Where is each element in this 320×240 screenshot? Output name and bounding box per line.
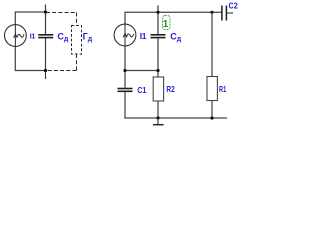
dashed lead from Gd box bottom <box>76 54 78 71</box>
junction node top-right <box>210 11 213 14</box>
current source G1 sine <box>17 34 24 37</box>
current source I1 arrowhead <box>123 34 127 38</box>
node 1 green box <box>163 16 171 30</box>
svg-text:C2: C2 <box>229 1 238 11</box>
ground stub <box>157 118 159 124</box>
svg-text:1: 1 <box>163 18 169 30</box>
wire: source bottom to bottom node <box>15 46 45 70</box>
capacitor C2 right stub <box>226 12 233 14</box>
svg-text:I1: I1 <box>140 31 147 41</box>
ground bar <box>153 124 164 126</box>
resistor R2 <box>153 77 163 101</box>
current source I1 sine <box>127 34 134 37</box>
capacitor Cd top plate <box>38 34 53 36</box>
capacitor Cd2 bottom plate <box>151 37 166 39</box>
junction node 1 top <box>156 11 159 14</box>
wire: source bottom down to C1 <box>124 46 126 88</box>
junction node bottom-left <box>44 69 47 72</box>
wire: top node down to R1 <box>211 12 213 76</box>
junction node Cd2 bottom <box>156 69 159 72</box>
capacitor C1 top plate <box>118 88 133 90</box>
current source G1 circle <box>5 25 27 47</box>
wire: R1 bottom to rail <box>211 101 213 119</box>
svg-text:R2: R2 <box>166 84 175 94</box>
current source I1 through-line <box>124 24 126 46</box>
junction node middle-left <box>123 69 126 72</box>
junction node top-left <box>44 10 47 13</box>
junction node ground <box>156 116 159 119</box>
dashed wire: top node to Gd lead <box>46 12 77 14</box>
dashed wire: Gd lead to bottom node <box>46 70 77 72</box>
wire: R2 bottom to rail <box>157 101 159 118</box>
svg-text:C1: C1 <box>137 85 146 95</box>
capacitor C2 left plate <box>221 6 223 21</box>
capacitor C2 right plate <box>225 6 227 21</box>
current source G1 arrowhead <box>14 34 18 38</box>
capacitor Cd2 top stub <box>157 6 159 13</box>
wire: below C1 + bottom rail <box>125 92 227 118</box>
top rail <box>125 12 222 24</box>
capacitor Cd bottom plate <box>38 37 53 39</box>
capacitor Cd2 top plate <box>151 34 166 36</box>
current source G1 through-line <box>14 25 16 47</box>
generator Gd dashed box <box>72 26 82 55</box>
wire: source top to top node <box>15 12 45 25</box>
capacitor Cd upper lead <box>45 5 47 35</box>
capacitor Cd2 lower lead down to R2 <box>157 38 159 77</box>
capacitor Cd2 upper lead <box>157 12 159 34</box>
svg-text:R1: R1 <box>219 84 226 94</box>
capacitor C1 bottom plate <box>118 90 133 92</box>
resistor R1 <box>207 77 217 101</box>
capacitor Cd lower lead <box>45 38 47 79</box>
current source I1 circle <box>114 24 136 46</box>
junction node bottom-right <box>210 116 213 119</box>
svg-text:I1: I1 <box>30 34 36 41</box>
dashed lead into Gd box top <box>76 13 78 26</box>
middle wire: source to Cd2 <box>125 70 158 72</box>
